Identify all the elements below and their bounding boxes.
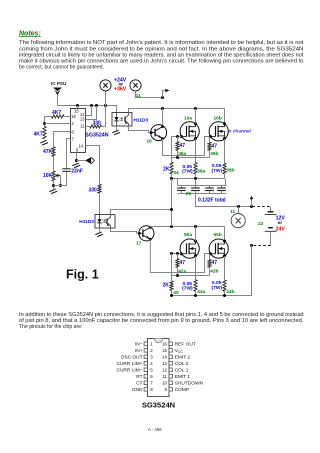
- svg-text:13: 13: [80, 117, 85, 122]
- wire: 4K7 to pin16: [64, 116, 71, 118]
- svg-text:H11D3: H11D3: [134, 117, 149, 123]
- svg-text:14: 14: [78, 143, 83, 148]
- node: rail junction pin12: [90, 104, 93, 107]
- svg-text:29: 29: [186, 191, 192, 197]
- svg-text:55a: 55a: [184, 232, 192, 238]
- wire: node to pin2: [45, 123, 71, 125]
- wire: wiper node to 22nF: [54, 171, 67, 185]
- node: rail junction pin13: [95, 104, 98, 107]
- svg-text:0.132F total: 0.132F total: [198, 198, 226, 204]
- svg-text:47K: 47K: [43, 149, 53, 155]
- svg-text:13: 13: [162, 361, 167, 366]
- wire: battery negative to 0V rail B: [225, 246, 252, 296]
- ground below pin8: [72, 163, 80, 168]
- node: 44a on rail: [194, 294, 197, 297]
- svg-text:(7W): (7W): [212, 285, 223, 291]
- svg-text:44a: 44a: [197, 289, 205, 295]
- opto-coupler U2 H11D3: [112, 113, 148, 127]
- svg-text:coming from John it must be co: coming from John it must be considered t…: [19, 46, 304, 52]
- ground opto1: [112, 130, 120, 135]
- svg-text:The pinouts for the chip are:: The pinouts for the chip are:: [19, 324, 82, 330]
- svg-text:GND: GND: [132, 387, 143, 393]
- svg-text:In addition to these SG3524N p: In addition to these SG3524N pin connect…: [19, 312, 304, 318]
- svg-text:11: 11: [162, 374, 167, 379]
- wire: pin13 elbow: [86, 106, 97, 120]
- svg-text:EMIT 2: EMIT 2: [175, 355, 191, 361]
- svg-text:+36V: +36V: [114, 87, 127, 93]
- transistor Q10a MOSFET: [180, 116, 199, 141]
- svg-text:IC PSU: IC PSU: [51, 81, 67, 86]
- opto-coupler U3 H11D3: [79, 215, 115, 229]
- wire: pin8 stub: [76, 153, 78, 161]
- lamp L11: [230, 207, 245, 228]
- arrow up (to load): [250, 196, 254, 207]
- wire: opto2 collector to column: [111, 210, 171, 215]
- node: 38a on 0V rail: [194, 177, 197, 180]
- svg-text:4K7: 4K7: [52, 110, 61, 116]
- wire: left column down (0V to drain rail B): [171, 179, 173, 227]
- IC pinout diagram SG3524N: [117, 339, 204, 410]
- svg-text:55b: 55b: [214, 232, 222, 238]
- wire: pin7 elbow down to 22nF: [67, 139, 71, 169]
- wire: lamp2 to rail node: [136, 91, 163, 98]
- wire: lamp1 lead: [105, 91, 107, 127]
- resistor 2K (gate pulldown A): [163, 162, 179, 176]
- svg-text:17: 17: [136, 241, 142, 247]
- supply return arrow at pin8: [85, 157, 94, 164]
- svg-text:H11D3: H11D3: [79, 219, 94, 225]
- node: 10K bottom: [52, 184, 55, 187]
- svg-text:integrated circuit is likely t: integrated circuit is likely to be unfam…: [19, 52, 304, 58]
- svg-text:SG3524N: SG3524N: [85, 133, 108, 139]
- svg-text:RT: RT: [136, 374, 142, 380]
- svg-text:34: 34: [173, 170, 179, 176]
- node: pin2 divider node: [43, 122, 46, 125]
- svg-text:10b: 10b: [214, 116, 222, 122]
- wire: IC PSU stem: [57, 95, 59, 106]
- resistor 4K7 horizontal (pin16 to pin2 node): [52, 110, 65, 118]
- wire: 10K bottom: [53, 181, 55, 189]
- wire: main drain rail: [129, 109, 225, 124]
- svg-text:11: 11: [80, 124, 85, 129]
- svg-text:11: 11: [230, 209, 235, 215]
- svg-text:15: 15: [162, 348, 167, 353]
- svg-text:n channel: n channel: [229, 129, 251, 135]
- wire: output arrow elbow: [163, 91, 166, 98]
- svg-text:IN−: IN−: [135, 342, 143, 348]
- svg-text:(7W): (7W): [182, 169, 193, 175]
- node: lamp2 junction: [161, 96, 164, 99]
- wire: T16 emitter to gate line: [163, 137, 211, 156]
- svg-text:15: 15: [74, 108, 79, 113]
- paragraph 1: [19, 40, 304, 70]
- node: 55a gate node: [176, 252, 179, 255]
- svg-text:16: 16: [162, 342, 167, 347]
- wire: 10a source + 0.05 resistor (38a): [182, 139, 206, 179]
- svg-text:47: 47: [180, 143, 186, 149]
- node: rail junction lamp: [104, 104, 107, 107]
- wire: Vcc rail to opto: [58, 106, 117, 113]
- wire: T17 collector elbow + drain rail B: [150, 227, 224, 242]
- node: rail-10a drain junction: [194, 107, 197, 110]
- wire: pin12 elbow: [86, 106, 92, 116]
- resistor 47K: [43, 147, 55, 157]
- svg-text:SHUTDOWN: SHUTDOWN: [175, 381, 204, 387]
- wire: pin6 elbow down to 47K: [54, 132, 71, 147]
- wire: 2K bottom to 0V rail: [171, 174, 173, 179]
- svg-text:14: 14: [162, 355, 167, 360]
- svg-text:make it obvious which pin conn: make it obvious which pin connections ar…: [19, 59, 304, 65]
- svg-text:be correct, but cannot be guar: be correct, but cannot be guaranteed.: [19, 65, 104, 71]
- wire: 2K-B bottom: [171, 291, 173, 296]
- svg-text:24V: 24V: [276, 227, 286, 233]
- ground below 10K: [49, 189, 57, 194]
- wire: line2 B: [172, 275, 210, 277]
- capacitor bank 29 (4 capacitors, 0.132F total): [177, 179, 226, 204]
- node: 2K on 0V rail: [170, 177, 173, 180]
- svg-text:EMIT 1: EMIT 1: [175, 374, 191, 380]
- svg-text:44b: 44b: [226, 289, 234, 295]
- resistor 330 (pin11): [86, 120, 106, 128]
- wire: T17 emitter to gate line B: [150, 239, 210, 273]
- svg-text:IN+: IN+: [135, 348, 143, 354]
- ground below 4K7: [40, 140, 48, 145]
- node label 11 (wire ref): [134, 92, 142, 99]
- wire: 0V rail A: [170, 178, 225, 180]
- resistor 4K7 vertical: [34, 126, 47, 139]
- svg-text:The following information is N: The following information is NOT part of…: [19, 40, 304, 46]
- svg-text:SG3524N: SG3524N: [142, 401, 175, 410]
- wire: opto2 emitter to T17 base: [111, 228, 139, 233]
- transistor Q55a MOSFET: [180, 232, 199, 258]
- node: wiper junction: [59, 184, 62, 187]
- transistor Q16: [147, 125, 167, 145]
- svg-text:of just pin 8, and that a 100n: of just pin 8, and that a 100nF capacito…: [19, 318, 304, 324]
- node: 47a bottom: [176, 156, 179, 159]
- svg-text:38a: 38a: [197, 168, 205, 174]
- op-amp IC U1 SG3524N: [71, 108, 109, 152]
- svg-text:CT: CT: [136, 381, 142, 387]
- node: column to drain rail B: [170, 225, 173, 228]
- svg-text:2K: 2K: [163, 167, 170, 173]
- wire: T16 collector: [162, 109, 164, 127]
- wire: 47K to 10K: [53, 157, 55, 172]
- node: pin8 ground node: [75, 159, 78, 162]
- wire: 10a drain: [195, 109, 197, 124]
- svg-text:CURR LIM−: CURR LIM−: [117, 368, 143, 374]
- wire: pin15 stub: [77, 106, 79, 109]
- wire: 55a source + 0.05 resistor (44a): [182, 256, 206, 295]
- svg-text:COMP: COMP: [175, 387, 189, 393]
- wire: 55a gate line: [172, 253, 182, 255]
- svg-text:10: 10: [162, 381, 167, 386]
- svg-text:4K7: 4K7: [34, 131, 43, 137]
- svg-text:COL 2: COL 2: [175, 361, 189, 367]
- IC PSU supply symbol: [51, 81, 67, 95]
- wire: 0V rail B: [172, 295, 252, 297]
- wire: opto2 LED cathode to ground: [99, 228, 101, 232]
- wire: bank output to battery: [196, 194, 252, 207]
- wire: 10a gate line: [172, 136, 182, 138]
- node: battery positive node: [250, 205, 253, 208]
- svg-text:36a: 36a: [178, 151, 186, 157]
- svg-text:36b: 36b: [210, 151, 218, 157]
- svg-text:Notes:: Notes:: [19, 30, 41, 37]
- node: opto2 collector junction: [170, 208, 173, 211]
- svg-text:(7W): (7W): [212, 168, 223, 174]
- battery 22 (12V or 24V): [253, 207, 286, 246]
- resistor 47 (36b): [208, 137, 219, 158]
- svg-text:COL 1: COL 1: [175, 368, 189, 374]
- wire: opto1 LED cathode to ground: [116, 126, 118, 130]
- wire: pot wiper down: [60, 176, 62, 186]
- svg-text:42a: 42a: [178, 268, 186, 274]
- transistor Q55b MOSFET: [209, 232, 228, 258]
- svg-text:47: 47: [212, 144, 218, 150]
- resistor 330 (pin14): [86, 146, 102, 215]
- wire: 55b source + 0.05 resistor (44b): [212, 256, 235, 295]
- node: rail-T16 junction: [161, 107, 164, 110]
- transistor Q17: [136, 226, 154, 247]
- lamp L1: [100, 80, 111, 91]
- resistor 47 (42a): [176, 254, 187, 276]
- svg-text:22: 22: [258, 221, 264, 227]
- potentiometer 10K: [43, 171, 61, 181]
- node: 44b on rail: [223, 294, 226, 297]
- transistor Q10b MOSFET: [209, 116, 228, 141]
- svg-text:12: 12: [162, 368, 167, 373]
- svg-text:38b: 38b: [226, 167, 234, 173]
- svg-text:2K: 2K: [163, 283, 170, 289]
- svg-text:VCC: VCC: [175, 348, 184, 354]
- svg-text:(7W): (7W): [182, 286, 193, 292]
- svg-text:CURR LIM+: CURR LIM+: [117, 361, 143, 367]
- wire: 4K7 left elbow down: [45, 117, 52, 127]
- resistor 2K (gate pulldown B): [163, 281, 179, 296]
- wire: line2 gate-resistor bus: [172, 157, 210, 159]
- svg-text:or: or: [278, 220, 283, 225]
- resistor 47 (36a): [176, 137, 187, 158]
- node: 55a gate-column node: [170, 252, 173, 255]
- svg-text:OSC OUT: OSC OUT: [121, 355, 143, 361]
- ground opto2: [95, 232, 103, 237]
- node: 2K-B on rail: [170, 294, 173, 297]
- resistor 47 (42b): [208, 254, 219, 276]
- capacitor 22nF: [62, 169, 83, 175]
- svg-text:47: 47: [212, 260, 218, 266]
- wire: left column B / 2K top: [171, 254, 173, 282]
- paragraph 2: [19, 312, 304, 330]
- svg-text:330: 330: [89, 188, 98, 194]
- svg-text:A - 469: A - 469: [148, 427, 162, 432]
- node: battery negative node: [250, 244, 253, 247]
- wire: opto1 emitter to T16 base: [129, 126, 151, 133]
- svg-text:42b: 42b: [210, 268, 218, 274]
- svg-text:REF OUT: REF OUT: [175, 342, 196, 348]
- svg-text:22nF: 22nF: [71, 169, 83, 175]
- svg-text:Fig. 1: Fig. 1: [66, 268, 99, 282]
- svg-text:47: 47: [180, 260, 186, 266]
- wire: left column / 2K top: [171, 137, 173, 163]
- arrow to load (top): [165, 89, 169, 93]
- svg-text:16: 16: [147, 139, 153, 145]
- wire: 10b source + 0.05 resistor (38b): [212, 139, 235, 179]
- svg-text:10K: 10K: [43, 173, 53, 179]
- wire: pin8 node to arrow: [77, 160, 86, 162]
- node: 42a bottom: [176, 274, 179, 277]
- node: rail junction pin15: [76, 104, 79, 107]
- svg-text:16: 16: [71, 114, 76, 119]
- svg-text:10a: 10a: [184, 116, 192, 122]
- lamp L2: [130, 80, 141, 91]
- node: 10a gate node: [176, 135, 179, 138]
- node: lamp11 tap: [237, 205, 240, 208]
- svg-text:330: 330: [93, 120, 102, 126]
- wire: 55a drain: [195, 227, 197, 242]
- node: 55a drain junction: [194, 225, 197, 228]
- label +24V or +36V: [114, 78, 127, 93]
